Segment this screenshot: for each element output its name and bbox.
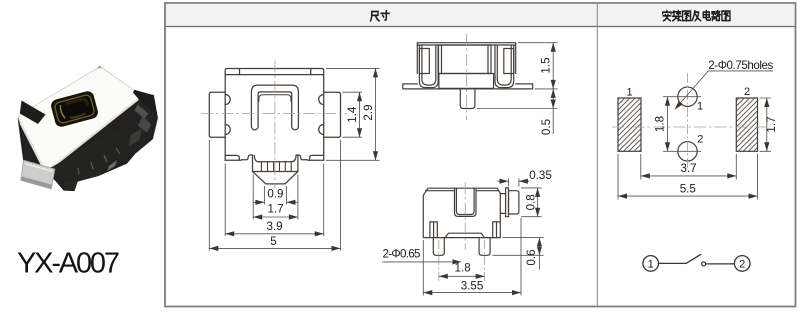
- hole 2 cross tick: [663, 150, 701, 152]
- svg-text:1: 1: [648, 258, 654, 270]
- dim 5.5 arrows: [618, 194, 758, 199]
- svg-text:2: 2: [739, 258, 745, 270]
- bottom notch inner: [456, 188, 474, 214]
- wire from terminal 1: [659, 262, 687, 264]
- svg-text:YX-A007: YX-A007: [17, 248, 120, 280]
- side view group: [403, 34, 558, 136]
- dim 5.5 line: [618, 195, 758, 197]
- dim 0.5 extension line: [477, 108, 558, 110]
- dim 0.6 arrows: [537, 238, 542, 256]
- bottom view group: [383, 169, 552, 296]
- header row background: [166, 4, 795, 27]
- front centerline horizontal: [201, 113, 347, 115]
- switch contact: [702, 262, 706, 266]
- bottom body inner top line: [426, 190, 500, 192]
- dim 5 extension lines: [209, 140, 340, 251]
- side right clip: [495, 45, 514, 88]
- terminal 1 circle: [643, 256, 659, 272]
- side centerline: [466, 34, 468, 121]
- svg-text:0.8: 0.8: [524, 194, 537, 210]
- dim 0.35 line: [498, 180, 530, 182]
- hole vertical centerline: [687, 73, 689, 168]
- dim 1.7 extension lines: [253, 175, 298, 220]
- hole 1: [678, 87, 697, 106]
- dim 1.8 pcb line: [667, 97, 669, 152]
- switch white top face: [19, 68, 139, 169]
- front top band ticks: [240, 69, 311, 75]
- front actuator ribs: [261, 162, 291, 172]
- holes leader arrow: [675, 101, 683, 110]
- hole 1 cross tick: [663, 96, 701, 98]
- svg-text:0.6: 0.6: [525, 249, 538, 265]
- bottom plate strip: [445, 233, 484, 237]
- front bottom profile left: [225, 155, 252, 160]
- leader arrow: [453, 259, 462, 264]
- dim 5 arrows: [209, 246, 340, 251]
- dim 1.4 extension lines: [343, 92, 363, 137]
- front foot top right: [310, 155, 324, 160]
- side left outer edge: [416, 45, 418, 74]
- dim 0.9 line: [253, 201, 298, 203]
- dim 1.5 arrows: [551, 43, 556, 89]
- lower-right base band: [46, 130, 121, 181]
- dim 1.7 pcb extension lines: [760, 98, 772, 151]
- side left clip: [419, 45, 438, 88]
- dim 3.9 extension lines: [225, 164, 324, 237]
- table frame: [165, 3, 796, 307]
- dim 0.35 extension lines: [509, 178, 519, 186]
- bottom body outline: [423, 188, 500, 237]
- front left ear: [209, 92, 225, 137]
- svg-text:2-Φ0.75holes: 2-Φ0.75holes: [708, 59, 773, 72]
- bottom side button flange: [506, 188, 509, 217]
- svg-text:5.5: 5.5: [680, 182, 696, 195]
- bottom side button cap: [509, 191, 519, 214]
- top-right corner black piece: [133, 90, 157, 115]
- terminal 2 circle: [734, 256, 750, 272]
- svg-text:1.7: 1.7: [765, 116, 778, 132]
- dim 3.7 extension lines: [641, 154, 737, 180]
- front top band line: [225, 74, 324, 76]
- bottom leg right: [479, 238, 490, 256]
- bottom corner clip right: [493, 222, 501, 238]
- svg-text:1.8: 1.8: [455, 261, 471, 274]
- dim 3.55 arrows: [423, 290, 521, 295]
- svg-text:1.4: 1.4: [346, 106, 359, 123]
- side top plate: [417, 43, 515, 45]
- metal terminal tab: [21, 160, 55, 189]
- dim 0.6 line: [538, 238, 540, 270]
- dim 2.9 line: [375, 68, 377, 160]
- side left clip window: [419, 49, 429, 74]
- wire to terminal 2: [706, 263, 735, 265]
- pad 1 (hatched): [618, 98, 641, 151]
- svg-text:3.55: 3.55: [461, 280, 484, 293]
- side right outer edge: [515, 45, 517, 74]
- dim 1.8 arrows: [439, 274, 485, 279]
- dim 2.9 extension lines: [326, 68, 380, 160]
- pad 2 (hatched): [736, 98, 757, 151]
- bottom notch outer: [455, 188, 477, 216]
- switch lever: [686, 254, 701, 263]
- dim 0.8 line: [537, 188, 539, 217]
- face edge shading: [21, 99, 139, 169]
- side central block inner walls: [442, 45, 489, 74]
- dim 1.7 pcb line: [766, 98, 768, 151]
- front U slot lip: [259, 95, 291, 102]
- svg-text:0.9: 0.9: [267, 187, 283, 200]
- svg-text:2: 2: [697, 134, 703, 146]
- hole 2: [678, 142, 697, 161]
- dim 0.9 arrows: [255, 200, 295, 205]
- dim 0.8 extension lines: [521, 188, 542, 217]
- svg-text:2: 2: [744, 86, 750, 98]
- front view group: [201, 61, 380, 252]
- dim 3.55 line: [423, 292, 521, 294]
- header text 安装图及电路图 (drawn strokes): [663, 10, 730, 20]
- dim 0.35 arrows: [500, 179, 528, 184]
- svg-text:1.7: 1.7: [267, 202, 283, 215]
- bottom centerline vertical: [464, 182, 466, 250]
- dim 3.7 arrows: [641, 173, 737, 178]
- svg-text:2-Φ0.65: 2-Φ0.65: [383, 248, 421, 261]
- dim 5 line: [209, 247, 340, 249]
- dim 0.5 arrows: [551, 89, 556, 109]
- dim 1.7 arrows: [253, 214, 298, 219]
- dim 3.55 extension lines: [423, 218, 521, 296]
- side base plate: [439, 74, 494, 89]
- dim 1.4 line: [359, 92, 361, 137]
- small black foot bottom center: [64, 181, 78, 191]
- right side stepped mass: [112, 98, 158, 163]
- front U slot: [251, 85, 298, 130]
- bottom leg centerlines: [439, 240, 485, 282]
- dim 0.9 extension lines: [264, 186, 286, 205]
- dim 3.9 arrows: [225, 231, 324, 236]
- svg-text:5: 5: [270, 235, 276, 248]
- base band ribs: [78, 148, 120, 174]
- dim 1.7 line: [253, 216, 298, 218]
- front body outline: [225, 69, 324, 161]
- pads horizontal centerline: [612, 126, 766, 128]
- header underline: [165, 26, 796, 28]
- front centerline vertical: [274, 61, 276, 189]
- dim 3.9 line: [225, 233, 324, 235]
- product photo: tactile switch: [18, 67, 157, 191]
- bottom leg left: [433, 238, 444, 256]
- dim 2.9 arrows: [373, 68, 378, 160]
- front bottom profile right: [296, 155, 323, 160]
- front actuator crown: [253, 155, 298, 172]
- right side plate highlights: [135, 105, 149, 119]
- side central block: [439, 45, 492, 74]
- dim 0.6 extension lines: [493, 238, 544, 256]
- switch base silhouette: [18, 67, 157, 191]
- top-left corner black piece: [20, 101, 46, 125]
- dim 1.8 pcb arrows: [665, 97, 670, 152]
- circuit group: [643, 254, 750, 271]
- svg-text:3.9: 3.9: [266, 220, 282, 233]
- dim 1.5/0.5 line: [552, 43, 554, 134]
- svg-text:2.9: 2.9: [362, 104, 375, 120]
- button window opening: [50, 90, 100, 128]
- svg-text:1: 1: [626, 87, 632, 99]
- dim 1.7 pcb arrows: [764, 98, 769, 151]
- bottom side button stem: [500, 194, 505, 214]
- pcb layout group: [612, 59, 778, 200]
- dim 5.5 extension lines: [618, 154, 758, 200]
- column divider: [596, 4, 598, 306]
- front foot top left: [225, 155, 239, 160]
- front right ear: [324, 92, 341, 137]
- dim 0.8 arrows: [535, 188, 540, 217]
- dim 1.8 line: [439, 275, 485, 277]
- side flange: [403, 84, 533, 89]
- header text 尺寸 (drawn strokes): [371, 11, 390, 21]
- svg-text:1: 1: [697, 101, 703, 113]
- dim 3.7 line: [641, 175, 737, 177]
- svg-text:1.8: 1.8: [653, 116, 666, 132]
- svg-text:1.5: 1.5: [540, 57, 553, 73]
- leader 2-phi0.65: [383, 261, 454, 263]
- svg-text:0.35: 0.35: [529, 169, 552, 182]
- dim 1.4 arrows: [357, 92, 362, 137]
- holes leader line: [677, 71, 774, 108]
- dim 1.5 extension lines: [518, 43, 558, 89]
- svg-text:0.5: 0.5: [540, 119, 553, 135]
- front actuator trapezoid: [253, 172, 298, 184]
- svg-text:3.7: 3.7: [680, 162, 696, 175]
- side right clip window: [504, 49, 514, 74]
- bottom corner clip left: [430, 222, 437, 238]
- front edge bumps: [225, 95, 324, 135]
- side center pin: [460, 89, 475, 109]
